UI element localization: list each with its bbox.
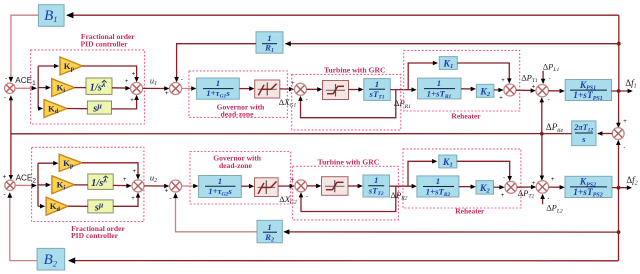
summing junction reheater output area 1 <box>504 84 516 96</box>
block dead-zone nonlinearity area 2 <box>255 178 279 197</box>
wire: governor junction to governor block area 2 <box>182 185 197 187</box>
summing junction tie-line <box>612 128 624 140</box>
summing junction governor input area 2 <box>170 180 182 192</box>
dashed box: fractional order PID controller area 1 <box>31 50 145 124</box>
wire: branch to Kp area 2 <box>38 162 56 164</box>
wire: tie-line feedback up into KPS junction area 1 <box>541 99 543 134</box>
wire: Ki output into 1/s^lambda area 2 <box>74 184 87 186</box>
summing junction GRC area 2 <box>295 180 307 192</box>
svg-text:+: + <box>499 95 503 101</box>
block B1 (frequency bias area 1) <box>38 5 64 27</box>
svg-text:Turbine with GRC: Turbine with GRC <box>324 65 386 74</box>
svg-text:-: - <box>4 94 6 101</box>
dashed box: turbine with GRC area 2 <box>293 166 399 220</box>
svg-text:+: + <box>131 196 135 202</box>
svg-text:s: s <box>581 134 586 144</box>
block reheater transfer 1/(1+sT_R2) <box>417 176 459 197</box>
block K2 area 2 <box>476 181 494 195</box>
svg-text:1: 1 <box>216 78 220 88</box>
svg-text:-: - <box>549 76 551 82</box>
block K1 area 2 <box>439 155 457 168</box>
svg-text:+: + <box>501 193 505 199</box>
wire: GRC rate feedback area 2 <box>301 186 396 211</box>
summing junction power system input area 2 <box>536 181 548 193</box>
gain Kd area 1 <box>44 100 67 118</box>
wire: governor to dead-zone <box>239 88 253 90</box>
svg-text:1: 1 <box>374 175 378 185</box>
wire: reheater transfer to K2 <box>461 88 475 90</box>
block power system K_PS2/(1+sT_PS2) <box>565 176 612 197</box>
svg-text:-: - <box>623 146 625 152</box>
dashed box: governor with dead-zone area 1 <box>189 71 288 118</box>
svg-text:+: + <box>132 169 136 175</box>
wire: droop feedback row into 1/R2 <box>284 231 618 233</box>
wire: s^mu output to PID sum <box>112 97 137 109</box>
gain Kp area 1 <box>60 57 82 75</box>
block power system K_PS1/(1+sT_PS1) <box>565 80 611 101</box>
wire: u1 from PID sum to governor junction <box>143 87 168 89</box>
svg-text:Turbine with GRC: Turbine with GRC <box>318 158 380 167</box>
block s^mu area 2 <box>88 200 113 213</box>
block s^mu area 1 <box>87 101 111 114</box>
wire: s^mu output to PID sum area 2 <box>113 194 138 206</box>
dashed box: reheater area 1 <box>404 50 520 111</box>
svg-text:1+τG2s: 1+τG2s <box>208 186 232 198</box>
wire: branch to Ki area 2 <box>38 184 49 186</box>
wire: GRC junction to saturation <box>307 88 321 90</box>
summing junction ACE1 <box>5 83 15 93</box>
block dead-zone nonlinearity area 1 <box>255 80 280 98</box>
wire: reheater sum to KPS junction area 2 <box>517 186 535 188</box>
dashed box: turbine with GRC area 1 <box>292 74 401 129</box>
block B2 (frequency bias area 2) <box>37 248 65 270</box>
svg-text:-: - <box>548 97 550 103</box>
block governor 1/(1+tau_G2 s) <box>199 176 242 198</box>
svg-text:PID controller: PID controller <box>71 231 119 240</box>
block K2 area 1 <box>476 84 494 97</box>
svg-text:1: 1 <box>218 176 222 186</box>
wire: load disturbance P_L2 into KPS junction area 2 <box>542 195 544 204</box>
block governor 1/(1+tau_G1 s) <box>197 78 240 99</box>
wire: branch to Kd area 2 <box>38 205 43 207</box>
svg-text:+: + <box>623 119 627 125</box>
block 1/R1 droop area 1 <box>256 32 283 53</box>
wire: K1 output to reheater sum area 2 <box>457 161 510 180</box>
wire: K1 output to reheater sum <box>457 63 509 82</box>
svg-text:PID controller: PID controller <box>81 39 129 48</box>
wire: ACE1 output into PID branch <box>15 87 36 89</box>
wire: 1/s^lambda output to PID sum <box>112 87 129 89</box>
svg-text:1: 1 <box>436 176 440 186</box>
wire: branch up to K1 area 2 <box>408 161 436 186</box>
summing junction reheater output area 2 <box>505 181 517 193</box>
wire: PID input branch vertical area 2 <box>37 163 39 206</box>
svg-text:-: - <box>170 195 172 202</box>
svg-text:+: + <box>165 90 169 97</box>
block saturation GRC area 2 <box>322 177 349 196</box>
svg-text:Reheater: Reheater <box>451 112 481 121</box>
svg-text:-: - <box>503 176 505 182</box>
wire: droop feedback from right column into 1/R1 <box>286 43 619 45</box>
svg-text:1: 1 <box>437 78 441 88</box>
svg-text:dead-zone: dead-zone <box>219 161 253 170</box>
svg-text:1: 1 <box>375 79 379 89</box>
wire: turbine output to reheater input <box>390 89 415 91</box>
svg-text:1+τG1s: 1+τG1s <box>206 88 230 100</box>
wire: branch to Kp <box>38 65 57 67</box>
wire: right column area 1 (delta f1 feedback) <box>618 15 620 44</box>
svg-text:+: + <box>3 174 7 181</box>
wire: KPS junction to power system block area 1 <box>548 90 563 92</box>
summing junction ACE2 <box>5 180 15 190</box>
node delta f1 tap <box>617 89 621 93</box>
dashed box: fractional order PID controller area 2 <box>32 147 144 221</box>
wire: turbine output to reheater input area 2 <box>390 185 416 187</box>
wire: Kd output into s^mu <box>67 108 87 110</box>
block 1/s^lambda area 1 <box>86 78 112 94</box>
wire: B2 output up into ACE2 <box>10 194 37 261</box>
wire: GRC junction to saturation area 2 <box>307 185 320 187</box>
wire: delta f1 output <box>612 90 632 92</box>
svg-text:+: + <box>532 181 536 187</box>
block saturation GRC area 1 <box>323 81 349 100</box>
block 1/R2 droop area 2 <box>257 220 282 243</box>
wire: K2 to reheater sum <box>494 89 502 91</box>
wire: 1/R2 output up into governor junction area 2 <box>176 194 258 232</box>
block turbine 1/(sT_T2) <box>363 175 390 197</box>
wire: dead-zone to GRC junction area 2 <box>278 185 293 187</box>
wire: tie-line row to left side <box>11 133 572 135</box>
block tie-line 2piT12/s <box>572 121 596 146</box>
wire: PID input branch vertical <box>37 66 39 109</box>
wire: B2 feedback row <box>69 260 619 262</box>
wire: 1/R1 output down into governor junction <box>177 44 256 81</box>
gain Kd area 2 <box>46 197 68 215</box>
svg-text:-: - <box>181 76 183 83</box>
svg-text:1: 1 <box>267 222 271 232</box>
wire: load disturbance P_L1 into KPS junction <box>542 71 544 83</box>
summing junction PID output area 2 <box>132 180 144 192</box>
wire: GRC rate feedback area 1 <box>301 90 396 118</box>
svg-text:-: - <box>4 191 6 198</box>
gain Ki area 2 <box>52 176 75 194</box>
dashed box: reheater area 2 <box>403 149 521 208</box>
wire: K2 to reheater sum area 2 <box>494 186 504 188</box>
svg-text:1: 1 <box>267 33 271 43</box>
wire: governor junction to governor block <box>182 88 195 90</box>
block reheater transfer 1/(1+sT_R1) <box>418 78 462 99</box>
svg-text:+: + <box>125 79 129 85</box>
block K1 area 1 <box>439 57 457 70</box>
svg-text:+: + <box>123 177 127 183</box>
summing junction PID output area 1 <box>131 82 143 94</box>
wire: branch to Kd <box>38 108 41 110</box>
wire: governor to dead-zone area 2 <box>241 185 252 187</box>
wire: delta f2 output <box>612 187 631 189</box>
summing junction GRC area 1 <box>295 83 307 95</box>
svg-text:+: + <box>551 177 555 183</box>
wire: saturation to turbine integrator <box>349 89 363 91</box>
wire: delta f2 feedback up into tie junction <box>618 141 620 188</box>
wire: tie junction output into 2pi T12/s block <box>598 133 612 135</box>
wire: Kp output to PID sum <box>82 66 136 81</box>
svg-text:+: + <box>501 78 505 84</box>
svg-text:-: - <box>5 75 7 82</box>
summing junction governor input area 1 <box>170 83 182 95</box>
wire: branch to Ki <box>38 87 49 89</box>
dashed box: governor with dead-zone area 2 <box>190 152 291 205</box>
svg-text:dead-zone: dead-zone <box>221 110 255 119</box>
wire: tie-line down into area 2 KPS junction <box>541 134 543 179</box>
svg-text:+: + <box>532 85 536 91</box>
node delta f2 tap <box>617 186 621 190</box>
gain Kp area 2 <box>59 154 82 171</box>
wire: reheater sum to KPS junction <box>516 89 535 91</box>
svg-text:Reheater: Reheater <box>455 207 485 216</box>
wire: saturation to turbine integrator area 2 <box>348 185 361 187</box>
gain Ki area 1 <box>52 79 75 97</box>
svg-text:+: + <box>165 187 169 194</box>
wire: Kd output into s^mu area 2 <box>68 205 88 207</box>
wire: tie-line feedback up into ACE1 and down to ACE2 <box>10 97 12 134</box>
svg-text:+: + <box>130 98 134 104</box>
wire: KPS junction to power system block area 2 <box>549 186 564 188</box>
wire: dead-zone to GRC junction <box>280 88 293 90</box>
wire: right column area 2 down to B2 row <box>618 188 620 232</box>
wire: reheater transfer to K2 area 2 <box>459 186 475 188</box>
wire: B1 output to ACE1 junction <box>11 15 39 81</box>
svg-text:-: - <box>306 194 308 200</box>
wire: 1/s^lambda output to PID sum area 2 <box>113 184 130 186</box>
block turbine 1/(sT_T1) <box>364 79 391 101</box>
summing junction power system input area 1 <box>536 85 548 97</box>
wire: Kp output to PID sum area 2 <box>82 163 138 178</box>
svg-text:+: + <box>132 72 136 78</box>
wire: top feedback line from node to B1 <box>67 14 619 16</box>
wire: branch up to K1 area 1 <box>408 63 436 90</box>
svg-text:-: - <box>306 98 308 104</box>
wire: Ki output into 1/s^lambda <box>75 87 87 89</box>
wire: u2 from PID sum to governor junction area 2 <box>144 185 168 187</box>
wire: ACE2 output into PID branch <box>15 184 36 186</box>
block 1/s^lambda area 2 <box>88 174 113 189</box>
svg-text:-: - <box>547 196 549 202</box>
